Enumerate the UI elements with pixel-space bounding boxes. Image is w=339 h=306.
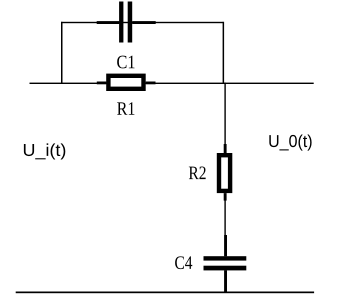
resistor R2 top lead (thick) [224, 144, 227, 153]
label U_0(t) [269, 134, 311, 150]
wire middle horizontal [30, 83, 314, 84]
capacitor C4 top plate [204, 256, 247, 260]
capacitor C1 right lead (thick) [132, 21, 156, 24]
resistor R1 body [108, 76, 143, 89]
wire vertical lower thin (junction to R2) [224, 83, 225, 145]
wire vertical thin (R2 to C4) [224, 201, 225, 236]
resistor R2 body [219, 155, 230, 191]
capacitor C4 bottom plate [204, 266, 247, 271]
wire right vertical branch upper [223, 22, 225, 84]
label C4 [175, 256, 192, 269]
capacitor C1 left plate [119, 2, 123, 43]
resistor R1 right lead (thick) [146, 82, 156, 85]
capacitor C4 top lead (thick) [224, 235, 227, 256]
capacitor C4 bottom lead (thick) [224, 270, 227, 291]
resistor R2 bottom lead (thick) [224, 193, 227, 201]
label C1 [117, 56, 134, 69]
wire top horizontal from left vertical to right vertical [61, 22, 224, 23]
label R1 [117, 102, 134, 115]
wire left vertical branch [61, 22, 63, 84]
wire bottom horizontal [16, 292, 314, 294]
label U_i(t) [24, 143, 65, 159]
label R2 [189, 167, 206, 180]
resistor R1 left lead (thick) [97, 82, 107, 85]
capacitor C1 right plate [128, 2, 133, 43]
capacitor C1 left lead (thick) [97, 21, 120, 24]
